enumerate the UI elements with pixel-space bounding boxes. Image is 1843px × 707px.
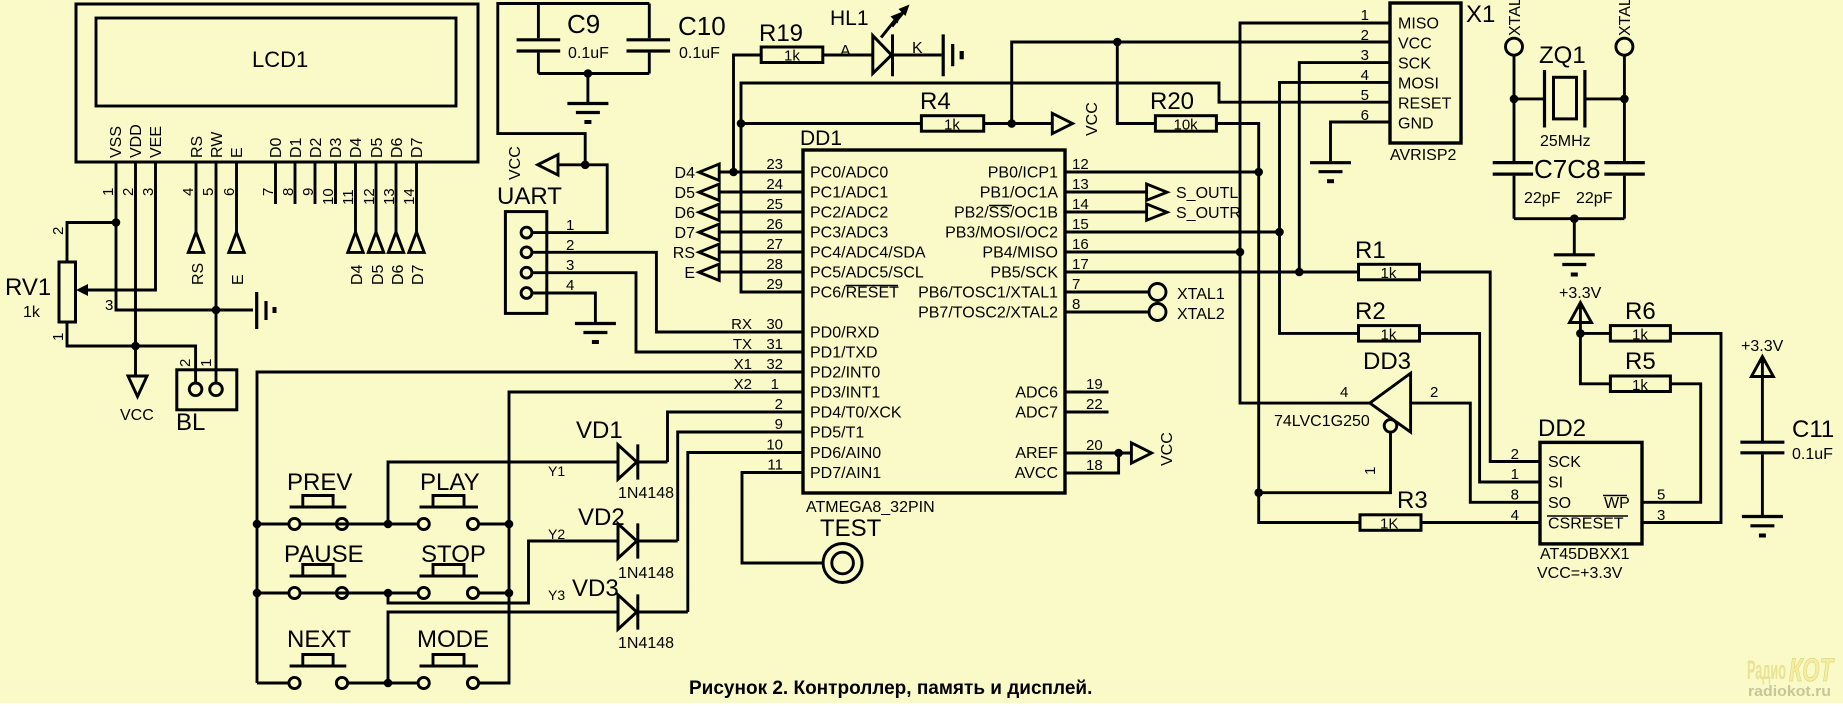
svg-text:VCC: VCC	[1398, 36, 1432, 53]
button NEXT	[289, 677, 300, 688]
wire R4 junction up to VCC rail	[1012, 42, 1390, 124]
wire R3 right to DD2 CS pin4	[1421, 521, 1540, 524]
svg-text:1k: 1k	[1381, 265, 1397, 282]
diode VD3	[618, 594, 638, 629]
svg-text:1k: 1k	[1632, 327, 1648, 344]
node left rail PREV	[253, 520, 262, 529]
svg-text:RV1: RV1	[5, 274, 51, 301]
DD3 enable bubble	[1384, 420, 1397, 433]
wire Y2 node down-right-up to VD2 anode	[388, 541, 618, 603]
node VCC/UART junction	[581, 161, 590, 170]
svg-text:PC4/ADC4/SDA: PC4/ADC4/SDA	[810, 245, 926, 262]
wire UART pin2 to DD1 PD0/RXD	[532, 252, 803, 332]
svg-text:S_OUTL: S_OUTL	[1176, 185, 1238, 202]
svg-text:PB7/TOSC2/XTAL2: PB7/TOSC2/XTAL2	[918, 305, 1058, 322]
BL pin1 circle	[210, 383, 223, 396]
pad circle XTAL1 (crystal side)	[1506, 38, 1523, 55]
svg-text:DD1: DD1	[800, 127, 842, 150]
svg-text:RS: RS	[673, 245, 695, 262]
wire X1 pin1 MISO net down to DD3 input	[1240, 23, 1390, 403]
connector BL box	[177, 370, 237, 410]
wire DD1 pin8 to XTAL2 pad	[1065, 311, 1149, 314]
svg-text:PB0/ICP1: PB0/ICP1	[988, 165, 1058, 182]
ground below C7C8	[1554, 255, 1595, 265]
svg-text:DD3: DD3	[1363, 348, 1411, 375]
svg-text:X2: X2	[734, 376, 752, 393]
svg-text:AVCC: AVCC	[1015, 465, 1058, 482]
svg-text:PD5/T1: PD5/T1	[810, 425, 864, 442]
wire VCC junction to UART pin1	[532, 165, 607, 233]
wire junction down to R3	[1259, 493, 1360, 523]
svg-text:1k: 1k	[23, 304, 41, 321]
svg-text:D3: D3	[328, 137, 345, 158]
port arrow S_OUTR	[1147, 204, 1167, 220]
node MISO junction	[1236, 248, 1245, 257]
svg-text:VEE: VEE	[148, 126, 165, 158]
resistor R3	[1360, 515, 1421, 531]
wire RESET net down to DD1 PC6	[741, 124, 803, 293]
svg-text:D4: D4	[348, 137, 365, 158]
svg-text:AT45DBXX1: AT45DBXX1	[1540, 546, 1630, 563]
svg-text:D5: D5	[369, 137, 386, 158]
wire DD3 output to DD2 SO pin8	[1411, 403, 1540, 502]
svg-text:HL1: HL1	[830, 7, 869, 30]
VCC arrow (down) below VDD	[128, 376, 147, 397]
resistor R19	[761, 47, 823, 63]
svg-text:2: 2	[1511, 446, 1519, 463]
wire DD1 pin9 to VD2 cathode	[678, 432, 803, 541]
wire R4 left to RESET net junction	[741, 122, 921, 125]
LED HL1	[873, 34, 893, 76]
RV1 wiper arrowhead	[76, 284, 88, 296]
wire R6 right down to DD2 RESET pin3	[1642, 333, 1721, 522]
wire PREV to PLAY (node Y1)	[300, 523, 418, 526]
wire LCD pin6 E down to port triangle	[235, 162, 238, 232]
ground below UART pin4	[575, 324, 616, 333]
svg-text:Y1: Y1	[548, 463, 565, 479]
VCC arrow (right) at R4	[1052, 113, 1072, 133]
wire DD1 pin32 X1 to left button rail	[257, 372, 803, 683]
ground (vertical bars) for HL1	[943, 34, 953, 76]
wire PC1 pin24	[719, 191, 803, 194]
svg-text:STOP: STOP	[421, 541, 486, 568]
svg-text:29: 29	[766, 276, 783, 293]
wire DD1 pin12 PB0 to R20/DD3 net	[1065, 171, 1259, 174]
wire DD1 pin11 to TEST button	[742, 473, 822, 564]
button STOP	[418, 587, 429, 598]
wire Y1 node up to VD1 anode	[388, 462, 618, 524]
wire VD1 cathode jog	[638, 461, 668, 464]
wire LCD pin8 D1 stub	[294, 162, 297, 204]
port triangle E	[229, 232, 244, 252]
node Y3	[384, 679, 393, 688]
svg-text:GND: GND	[1398, 116, 1434, 133]
svg-text:0.1uF: 0.1uF	[568, 45, 609, 62]
svg-text:PC2/ADC2: PC2/ADC2	[810, 205, 888, 222]
svg-text:25MHz: 25MHz	[1540, 133, 1591, 150]
node X2/PLAY	[505, 520, 514, 529]
svg-text:R19: R19	[759, 20, 803, 47]
svg-text:4: 4	[1340, 384, 1348, 401]
node C7C8 rail	[1570, 214, 1579, 223]
svg-text:ATMEGA8_32PIN: ATMEGA8_32PIN	[806, 499, 935, 516]
ground (vertical bars) for LCD VSS/RW net	[257, 292, 266, 329]
svg-text:14: 14	[1072, 196, 1089, 213]
wire LCD pin14 D7 to port triangle	[415, 162, 418, 232]
svg-text:MODE: MODE	[417, 626, 489, 653]
svg-text:CSRESET: CSRESET	[1548, 516, 1624, 533]
svg-text:D5: D5	[675, 185, 696, 202]
svg-text:A: A	[840, 43, 851, 60]
node bottom rail to ground	[584, 69, 593, 78]
wire LCD pin10 D3 stub	[334, 162, 337, 204]
wire RESET net up and right to X1 pin5	[741, 83, 1390, 124]
svg-text:7: 7	[1072, 276, 1080, 293]
svg-text:D6: D6	[390, 264, 407, 285]
wire DD1 pin17 SCK row to R1	[1065, 271, 1359, 274]
svg-text:ADC7: ADC7	[1015, 405, 1058, 422]
resistor RV1 (potentiometer body)	[59, 262, 76, 322]
svg-text:MOSI: MOSI	[1398, 76, 1439, 93]
wire LCD pin5 RW down to BL pin1	[215, 162, 218, 383]
node +3.3V / R6 junction	[1576, 329, 1585, 338]
capacitor C11	[1740, 442, 1784, 453]
svg-text:RW: RW	[209, 131, 226, 158]
wire X1 pin3 SCK down to PB5 row	[1299, 63, 1390, 272]
svg-text:PD1/TXD: PD1/TXD	[810, 345, 878, 362]
svg-text:VCC: VCC	[1159, 432, 1176, 466]
svg-text:PB5/SCK: PB5/SCK	[990, 265, 1058, 282]
UART pin3 circle	[521, 267, 532, 278]
svg-text:S_OUTR: S_OUTR	[1176, 205, 1241, 222]
svg-text:PD6/AIN0: PD6/AIN0	[810, 445, 881, 462]
svg-text:VD3: VD3	[572, 575, 619, 602]
wire +3.3V node to R6	[1580, 332, 1610, 335]
svg-text:11: 11	[767, 457, 783, 474]
svg-text:RS: RS	[189, 136, 206, 158]
wire DD1 pin16 MISO row	[1065, 251, 1240, 254]
wire VCC rail down to R20	[1117, 42, 1155, 124]
diode VD2	[618, 523, 638, 558]
wire left rail to NEXT	[257, 682, 289, 685]
svg-text:5: 5	[200, 188, 217, 196]
svg-text:5: 5	[1361, 87, 1369, 104]
svg-text:1: 1	[1362, 467, 1379, 475]
svg-text:1: 1	[198, 359, 215, 367]
port triangle E	[699, 264, 719, 281]
svg-text:PB3/MOSI/OC2: PB3/MOSI/OC2	[945, 225, 1058, 242]
wire DD1 pin14 to S_OUTR	[1065, 211, 1147, 214]
wire VD3 cathode jog	[638, 611, 688, 614]
node PB0/R20 junction	[1254, 168, 1263, 177]
svg-text:R1: R1	[1355, 237, 1386, 264]
svg-text:AREF: AREF	[1015, 445, 1058, 462]
wire LCD pin1 VSS down to ground line	[116, 162, 253, 310]
svg-text:24: 24	[766, 176, 783, 193]
node AREF/AVCC junction	[1114, 449, 1123, 458]
wire PLAY to X2 column	[479, 523, 509, 526]
wire PC2 pin25	[719, 211, 803, 214]
wire LCD pin7 D0 stub	[274, 162, 277, 204]
wire PC3 pin26	[719, 231, 803, 234]
node R4 right junction	[1007, 119, 1016, 128]
svg-text:LCD1: LCD1	[252, 47, 308, 72]
svg-text:ZQ1: ZQ1	[1539, 42, 1586, 69]
ground below C11	[1742, 517, 1783, 526]
port triangle D6	[388, 232, 403, 252]
resistor R5	[1610, 376, 1670, 392]
svg-text:PREV: PREV	[287, 469, 352, 496]
node MOSI junction	[1275, 228, 1284, 237]
wire DD1 pin1 X2 to right button column	[479, 392, 803, 683]
svg-text:PB2/SS/OC1B: PB2/SS/OC1B	[954, 205, 1058, 222]
HL1 emission arrow 1	[881, 17, 897, 38]
svg-text:PD0/RXD: PD0/RXD	[810, 325, 879, 342]
svg-text:R4: R4	[920, 88, 951, 115]
svg-text:1: 1	[1361, 7, 1369, 24]
wire DD1 pin13 to S_OUTL	[1065, 191, 1147, 194]
svg-text:20: 20	[1086, 437, 1103, 454]
svg-text:VCC: VCC	[507, 146, 524, 180]
svg-text:VD2: VD2	[578, 504, 625, 531]
svg-text:VCC: VCC	[120, 407, 154, 424]
svg-text:2: 2	[775, 396, 783, 413]
svg-text:1: 1	[1511, 466, 1519, 483]
svg-text:23: 23	[766, 156, 783, 173]
wire +3.3V node down to R5	[1580, 333, 1610, 383]
svg-text:3: 3	[1657, 507, 1665, 524]
wire DD1 pin2 to VD1 cathode	[668, 412, 804, 462]
svg-text:SCK: SCK	[1548, 454, 1581, 471]
wire DD1 pin19 ADC6 stub	[1065, 391, 1109, 394]
svg-text:D4: D4	[349, 264, 366, 285]
svg-text:18: 18	[1086, 457, 1103, 474]
svg-text:TX: TX	[733, 336, 752, 353]
svg-text:X1: X1	[1466, 1, 1495, 28]
wire left rail to PAUSE	[257, 592, 289, 595]
svg-text:WP: WP	[1604, 495, 1630, 512]
svg-text:1k: 1k	[944, 117, 960, 134]
svg-text:15: 15	[1072, 216, 1089, 233]
svg-text:8: 8	[1072, 296, 1080, 313]
svg-text:2: 2	[177, 359, 194, 367]
wire DD1 pin18 AVCC jog up	[1065, 453, 1119, 473]
svg-text:1k: 1k	[784, 48, 800, 65]
node VCC rail / R20 junction	[1113, 38, 1122, 47]
wire DD1 pin15 MOSI row	[1065, 231, 1280, 234]
svg-text:1K: 1K	[1380, 516, 1398, 533]
wire LCD pin9 D2 stub	[314, 162, 317, 204]
pad circle XTAL1	[1149, 284, 1166, 301]
svg-text:VD1: VD1	[576, 417, 623, 444]
svg-text:PD3/INT1: PD3/INT1	[810, 385, 880, 402]
wire X1 pin6 GND to ground	[1331, 122, 1391, 161]
svg-text:PC6/RESET: PC6/RESET	[810, 285, 899, 302]
svg-text:PD4/T0/XCK: PD4/T0/XCK	[810, 405, 902, 422]
LCD1 outer box	[76, 4, 478, 162]
wire PC0 pin23	[719, 171, 803, 174]
wire DD1 pin7 to XTAL1 pad	[1065, 291, 1149, 294]
wire R1 right to DD2 SCK pin2	[1420, 272, 1541, 462]
svg-text:13: 13	[1072, 176, 1089, 193]
svg-text:PD7/AIN1: PD7/AIN1	[810, 465, 881, 482]
svg-text:22: 22	[1086, 396, 1103, 413]
pad circle XTAL2 (crystal side)	[1616, 38, 1633, 55]
node R4/RESET junction	[737, 119, 746, 128]
wire DD3 enable down to PB0 net	[1259, 432, 1391, 493]
wire RV1 pin2 to VSS	[67, 223, 116, 263]
button PREV	[289, 518, 300, 529]
node DD3 enable / R3 junction	[1254, 488, 1263, 497]
svg-text:12: 12	[1072, 156, 1089, 173]
svg-text:PC3/ADC3: PC3/ADC3	[810, 225, 888, 242]
+3.3V arrow (up) at C11	[1751, 357, 1773, 379]
resistor R20	[1155, 116, 1216, 132]
node SCK junction	[1295, 268, 1304, 277]
svg-text:Y3: Y3	[548, 587, 565, 603]
svg-text:VDD: VDD	[128, 124, 145, 158]
port triangle D6	[699, 204, 719, 221]
node X2/STOP	[505, 589, 514, 598]
svg-text:2: 2	[1430, 384, 1438, 401]
svg-text:Y2: Y2	[548, 526, 565, 542]
wire rail to ground	[1573, 219, 1576, 254]
resistor R4	[921, 116, 983, 132]
svg-text:D6: D6	[675, 205, 696, 222]
port arrow S_OUTL	[1147, 184, 1167, 200]
svg-text:SCK: SCK	[1398, 56, 1431, 73]
svg-text:28: 28	[766, 256, 783, 273]
resistor R6	[1610, 326, 1670, 342]
svg-text:MISO: MISO	[1398, 16, 1439, 33]
svg-text:RS: RS	[190, 263, 207, 285]
wire C9/C10 bottom rail	[538, 72, 649, 75]
svg-text:XTAL1: XTAL1	[1507, 0, 1524, 36]
svg-text:D7: D7	[675, 225, 696, 242]
wire LCD pin3 VEE down to RV1 wiper	[84, 162, 156, 290]
svg-text:PAUSE: PAUSE	[284, 541, 364, 568]
svg-text:C7C8: C7C8	[1534, 154, 1600, 184]
svg-text:26: 26	[766, 216, 783, 233]
port triangle D4	[348, 232, 363, 252]
svg-text:22pF: 22pF	[1576, 190, 1613, 207]
svg-text:+3.3V: +3.3V	[1741, 338, 1784, 355]
wire C7/C8 bottom rail	[1514, 217, 1624, 220]
svg-text:1: 1	[566, 217, 574, 234]
button PLAY	[418, 518, 429, 529]
wire PB0 net down to DD3 enable junction	[1257, 172, 1260, 493]
wire LCD pin4 RS down to port triangle	[195, 162, 198, 232]
svg-text:SI: SI	[1548, 475, 1563, 492]
svg-text:+3.3V: +3.3V	[1559, 285, 1602, 302]
svg-text:1: 1	[771, 376, 779, 393]
svg-text:E: E	[230, 274, 247, 285]
connector X1 box	[1390, 3, 1461, 143]
capacitor C10	[648, 4, 651, 39]
HL1 emission arrow 2	[892, 10, 906, 27]
svg-text:Радио: Радио	[1747, 655, 1786, 685]
svg-text:5: 5	[1657, 487, 1665, 504]
ground below X1	[1310, 163, 1351, 172]
svg-text:25: 25	[766, 196, 783, 213]
resistor R1	[1359, 264, 1420, 280]
svg-text:32: 32	[766, 356, 783, 373]
wire R5 right down to DD2 WP pin5	[1642, 384, 1701, 503]
wire RV1 pin1 to VDD line and BL pin2	[67, 322, 196, 383]
svg-text:D7: D7	[410, 264, 427, 285]
svg-text:PB1/OC1A: PB1/OC1A	[980, 185, 1059, 202]
node VDD/VCC junction	[131, 342, 140, 351]
svg-text:R2: R2	[1355, 298, 1386, 325]
svg-text:74LVC1G250: 74LVC1G250	[1274, 413, 1370, 430]
node ZQ1 right	[1620, 95, 1629, 104]
buffer DD3 74LVC1G250	[1370, 373, 1411, 432]
VCC arrow (left) for UART	[538, 155, 586, 175]
svg-text:10k: 10k	[1174, 117, 1199, 134]
svg-text:VCC=+3.3V: VCC=+3.3V	[1537, 565, 1623, 582]
wire STOP to X2 column	[479, 592, 509, 595]
svg-text:10: 10	[766, 437, 783, 454]
wire +3.3V down to C11	[1761, 379, 1764, 442]
ground below C9/C10	[567, 104, 608, 113]
VCC arrow (right) at AREF	[1131, 443, 1151, 463]
svg-text:DD2: DD2	[1538, 415, 1586, 442]
port triangle RS	[188, 232, 203, 252]
svg-text:3: 3	[105, 297, 113, 314]
svg-text:PC5/ADC5/SCL: PC5/ADC5/SCL	[810, 265, 924, 282]
node Y2	[384, 589, 393, 598]
UART pin4 circle	[521, 288, 532, 299]
+3.3V arrow (up) at R6/R5	[1570, 303, 1592, 334]
svg-text:4: 4	[180, 188, 197, 196]
svg-text:22pF: 22pF	[1524, 190, 1561, 207]
port triangle D5	[699, 184, 719, 201]
wire to ground	[586, 74, 589, 103]
svg-text:PB6/TOSC1/XTAL1: PB6/TOSC1/XTAL1	[918, 285, 1058, 302]
svg-text:2: 2	[50, 227, 67, 235]
svg-text:R20: R20	[1150, 88, 1194, 115]
node ZQ1 left	[1510, 95, 1519, 104]
diode VD1	[618, 444, 638, 479]
svg-text:D4: D4	[675, 165, 696, 182]
node left rail PAUSE	[253, 589, 262, 598]
svg-text:PC1/ADC1: PC1/ADC1	[810, 185, 888, 202]
svg-text:1N4148: 1N4148	[618, 635, 674, 652]
svg-text:PB4/MISO: PB4/MISO	[982, 245, 1058, 262]
wire left rail to PREV	[257, 523, 289, 526]
svg-text:VSS: VSS	[108, 126, 125, 158]
wire DD1 pin20 AREF to VCC	[1065, 452, 1131, 455]
UART pin2 circle	[521, 247, 532, 258]
svg-text:D5: D5	[370, 264, 387, 285]
svg-text:8: 8	[1511, 487, 1519, 504]
port triangle D5	[368, 232, 383, 252]
svg-text:VCC: VCC	[1084, 102, 1101, 136]
svg-text:31: 31	[766, 336, 783, 353]
svg-text:4: 4	[566, 277, 574, 294]
svg-text:E: E	[684, 265, 695, 282]
wire NEXT to MODE (node Y3)	[348, 682, 419, 685]
svg-text:X1: X1	[734, 356, 752, 373]
svg-text:ADC6: ADC6	[1015, 385, 1058, 402]
svg-text:BL: BL	[176, 409, 205, 436]
wire UART pin3 to DD1 PD1/TXD	[532, 273, 803, 352]
wire LCD pin2 VDD down to VCC arrow	[134, 162, 137, 376]
wire DD1 pin10 to VD3 cathode	[688, 453, 803, 613]
svg-text:D1: D1	[288, 137, 305, 158]
port triangle D7	[409, 232, 424, 252]
node Y1	[384, 520, 393, 529]
